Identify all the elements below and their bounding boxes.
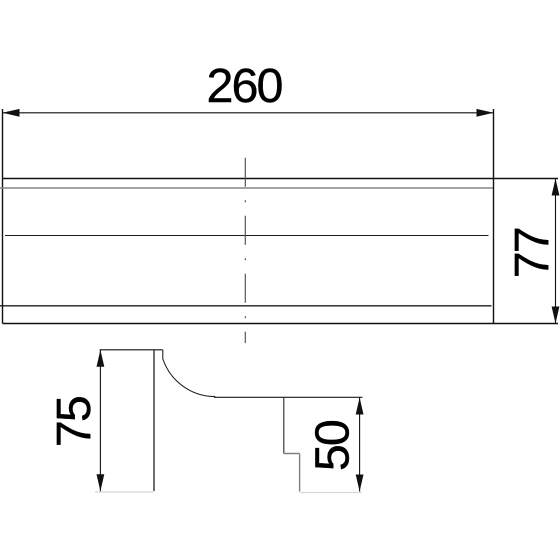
svg-text:77: 77 <box>505 228 559 278</box>
faint extension right <box>300 492 362 494</box>
inner edge line gray <box>0 187 493 189</box>
dimension line 75 <box>99 350 101 492</box>
middle edge line <box>5 235 489 237</box>
dimension line 260 <box>3 112 494 114</box>
arrow top 77 <box>552 179 560 196</box>
profile fillet curve <box>163 350 216 397</box>
arrow top 50 <box>356 398 364 415</box>
arrow left 260 <box>3 109 20 117</box>
arrow top 75 <box>97 350 105 367</box>
profile top edge <box>100 349 163 351</box>
dimension line 50 <box>359 398 361 492</box>
profile step horizontal <box>284 453 300 455</box>
arrow bottom 77 <box>552 307 560 324</box>
arrow bottom 50 <box>356 475 364 492</box>
top view outline <box>3 109 559 324</box>
arrow right 260 <box>477 109 494 117</box>
profile step upper vertical <box>283 398 285 454</box>
profile shelf line <box>214 396 363 398</box>
center line <box>244 158 246 343</box>
arrow bottom 75 <box>97 474 105 491</box>
profile step lower vertical <box>299 454 301 492</box>
svg-text:260: 260 <box>207 59 283 113</box>
svg-text:75: 75 <box>47 397 101 447</box>
faint extension left <box>95 491 154 493</box>
dimension line 77 <box>555 179 557 324</box>
svg-text:50: 50 <box>306 420 360 471</box>
profile left edge <box>153 350 155 491</box>
lower edge line <box>0 305 492 307</box>
